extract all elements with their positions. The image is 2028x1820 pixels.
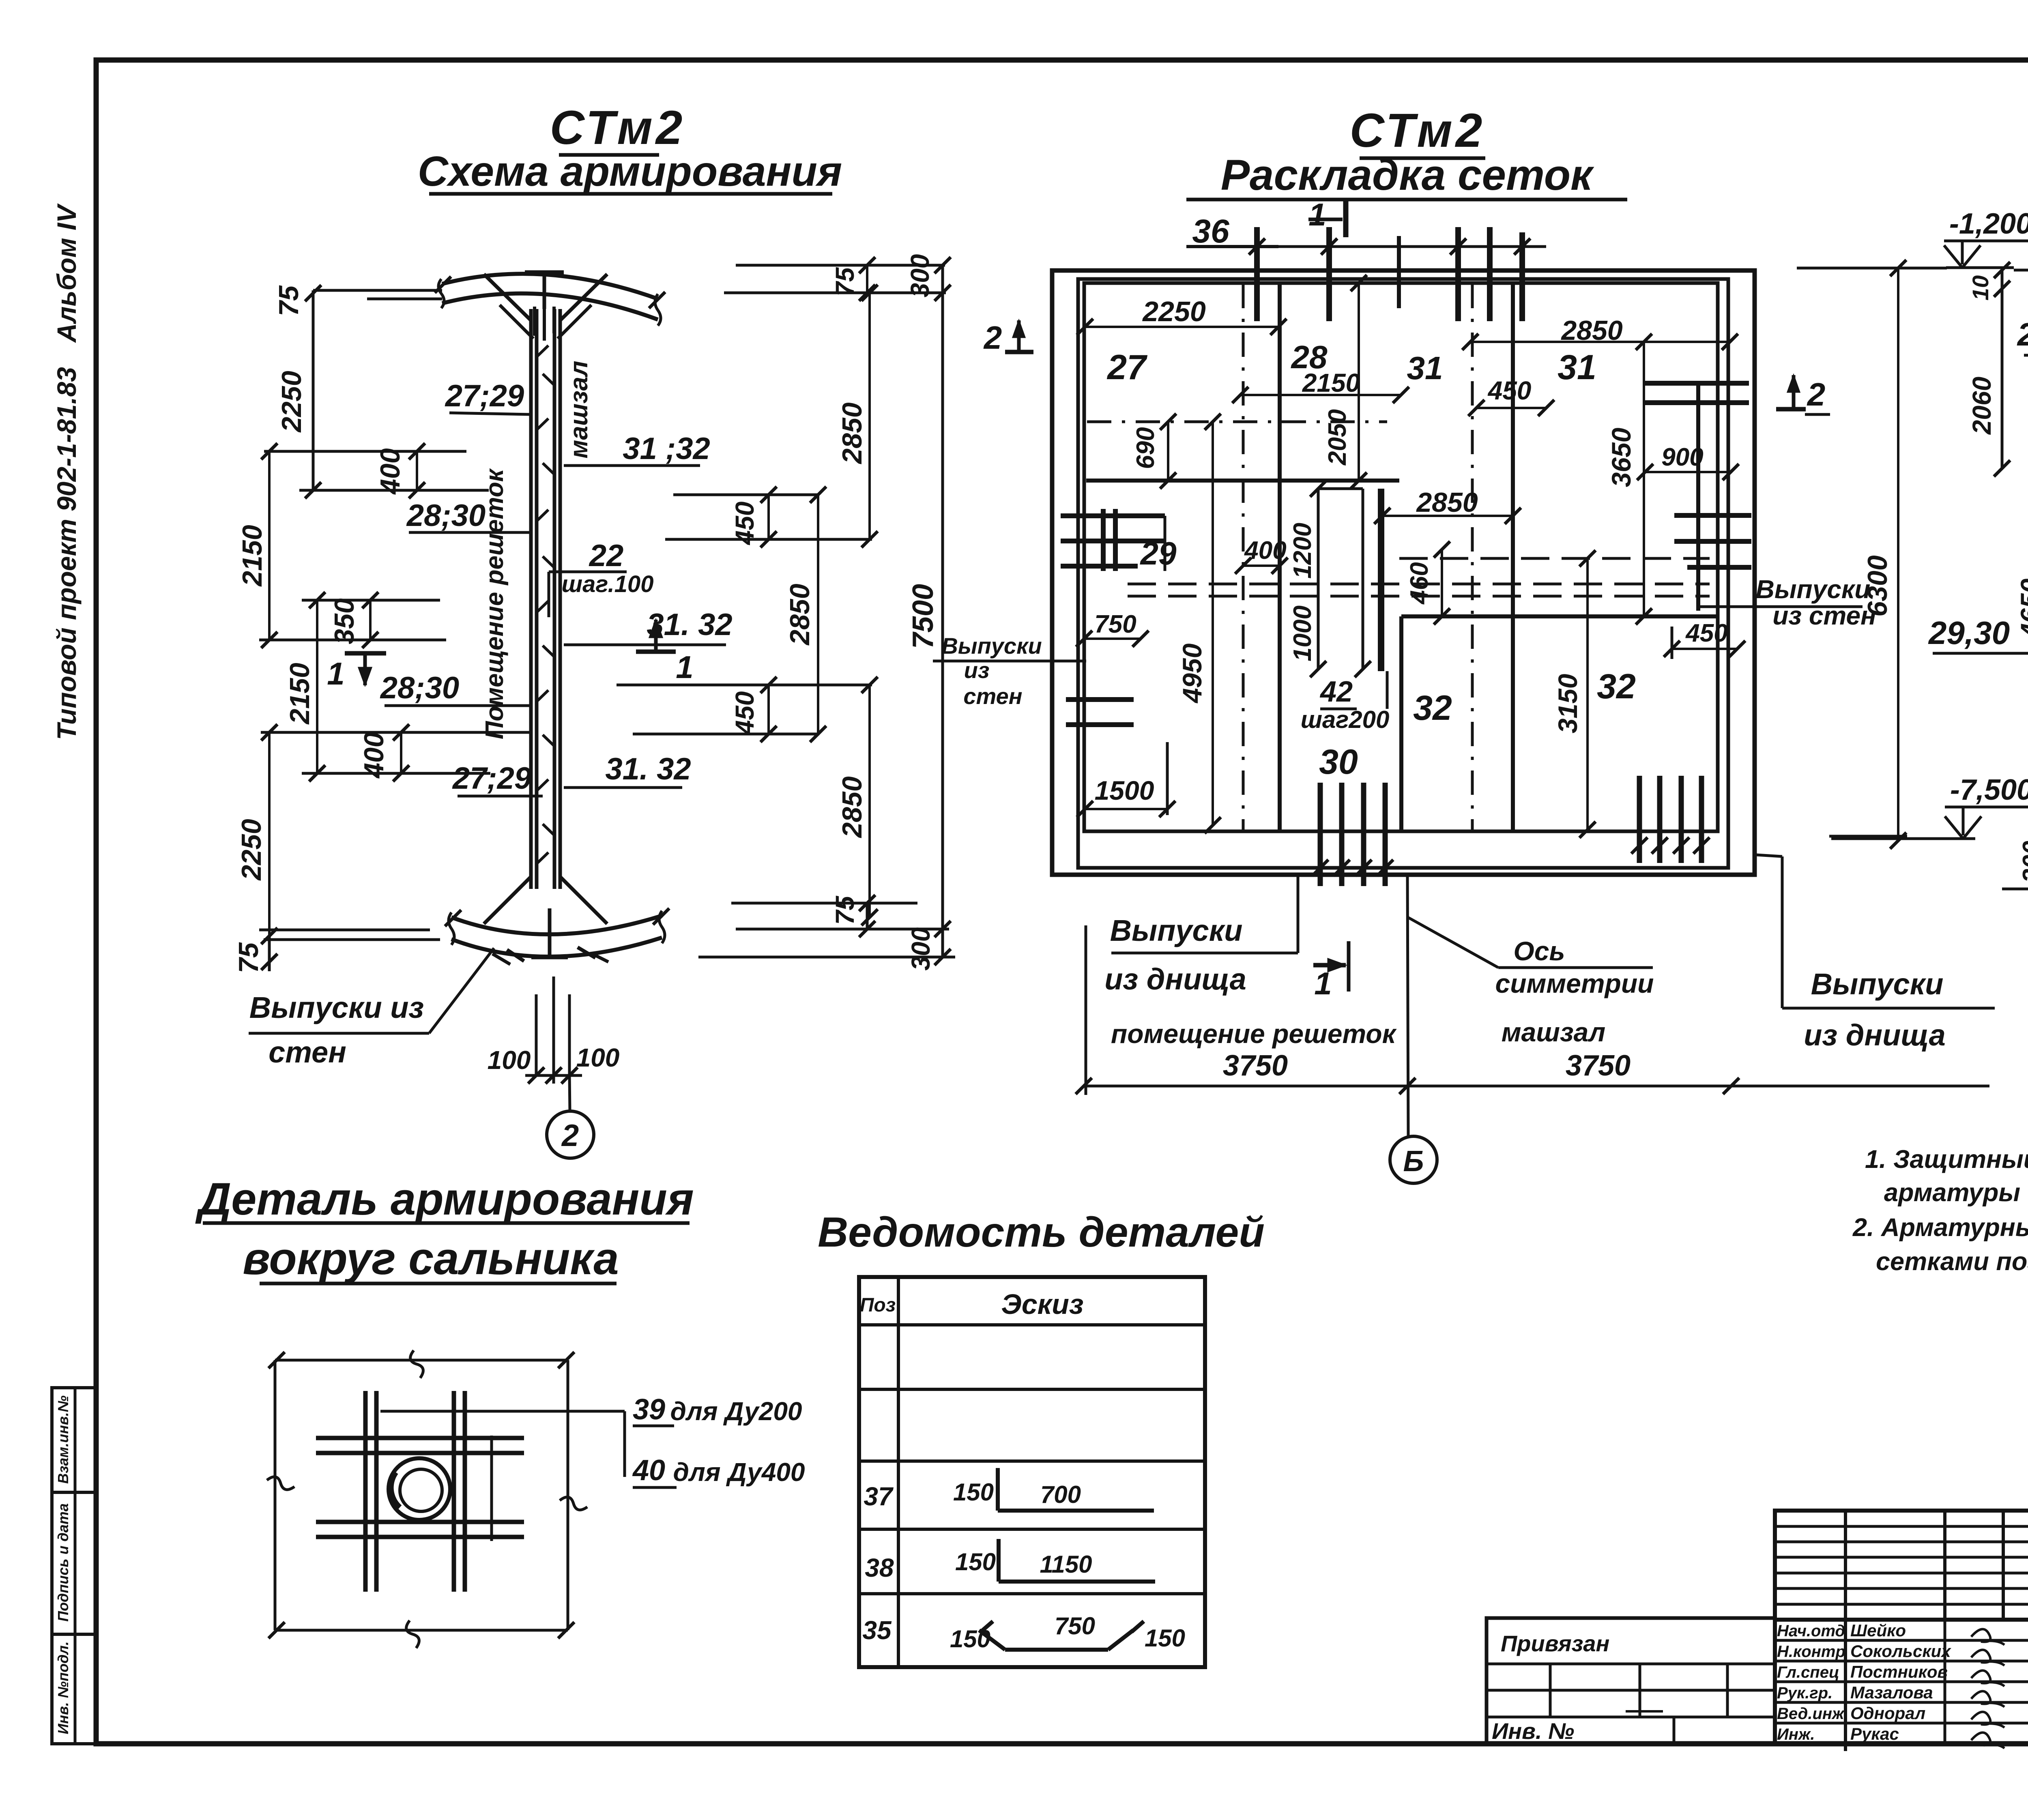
long dash axis y1440 — [1128, 583, 1710, 586]
detail left dim line — [274, 1360, 277, 1630]
section mark 1 right — [636, 650, 676, 654]
svg-text:30: 30 — [1319, 743, 1358, 781]
left ext line y1480 — [302, 599, 440, 602]
vertical axis dash line right — [1471, 284, 1474, 831]
wall bottom inverted T rebar — [548, 908, 552, 957]
svg-text:Раскладка сеток: Раскладка сеток — [1221, 150, 1594, 199]
svg-text:27, 28: 27, 28 — [2017, 316, 2028, 352]
wall bottom hook marks — [507, 950, 524, 961]
detail leader line — [380, 1410, 625, 1413]
right ext line y2227 — [731, 902, 917, 905]
svg-text:1000: 1000 — [1289, 605, 1317, 661]
vedomost row line 2 — [859, 1459, 1205, 1463]
svg-text:31: 31 — [1558, 348, 1596, 387]
svg-text:2. Арматурные выпуски поз. 4: 2. Арматурные выпуски поз. 42 связать с — [1852, 1213, 2028, 1242]
svg-text:150: 150 — [950, 1625, 990, 1653]
s11 dim 2060 — [2001, 270, 2004, 468]
svg-text:28;30: 28;30 — [380, 671, 459, 705]
s11 ext 6300 left top — [1898, 267, 1947, 270]
vedomost header divider — [859, 1323, 1205, 1326]
left dim 400 upper line — [416, 451, 418, 490]
svg-text:1150: 1150 — [1040, 1551, 1092, 1578]
svg-text:арматуры - 25 мм.: арматуры - 25 мм. — [1884, 1178, 2028, 1207]
svg-text:Б: Б — [1403, 1145, 1424, 1178]
svg-text:32: 32 — [1413, 689, 1452, 728]
circle mark 2 left drawing — [547, 1111, 594, 1158]
right ext line y1330 — [665, 538, 872, 541]
svg-text:450: 450 — [1685, 619, 1727, 647]
right ext line y722 — [724, 292, 946, 294]
svg-text:75: 75 — [273, 285, 304, 316]
svg-text:460: 460 — [1405, 562, 1433, 605]
mesh 27 bottom boundary — [1086, 479, 1399, 483]
svg-text:75: 75 — [233, 942, 264, 973]
svg-text:42: 42 — [1319, 676, 1353, 708]
svg-text:Помещение решеток: Помещение решеток — [481, 468, 509, 739]
svg-text:450: 450 — [730, 691, 759, 736]
long dash axis y1470 — [1128, 595, 1710, 598]
vypuski iz dnishcha bars right group — [1637, 776, 1642, 863]
leader vypuski iz sten — [429, 948, 494, 1033]
wall top hatch bars — [533, 307, 536, 336]
left ext line y1806 — [261, 731, 529, 734]
svg-text:2150: 2150 — [284, 663, 315, 725]
mesh 36 top bars — [1254, 227, 1260, 321]
right dim 450 upper line — [767, 495, 770, 539]
svg-text:Инж.: Инж. — [1777, 1726, 1815, 1743]
leader os simmetrii — [1408, 917, 1498, 968]
svg-text:Гл.спец: Гл.спец — [1777, 1663, 1839, 1681]
svg-text:2250: 2250 — [236, 819, 267, 881]
svg-text:31: 31 — [1407, 350, 1443, 386]
right dim 7500 line — [941, 265, 944, 957]
plan second border — [1078, 279, 1728, 868]
svg-text:стен: стен — [963, 683, 1022, 709]
detail horizontal bars top pair — [316, 1436, 524, 1440]
right ext line y1810 — [633, 733, 819, 736]
plan inner face — [1084, 283, 1718, 831]
svg-text:Типовой проект 902-1-81.83: Типовой проект 902-1-81.83 — [52, 367, 82, 740]
svg-text:2150: 2150 — [1302, 368, 1360, 397]
right ext line y2360 — [698, 956, 955, 959]
svg-text:2850: 2850 — [1416, 487, 1478, 518]
svg-text:Выпуски: Выпуски — [1110, 914, 1243, 947]
svg-text:150: 150 — [1145, 1625, 1185, 1652]
svg-text:3650: 3650 — [1606, 427, 1636, 487]
titleblock narrow grid columns — [1844, 1511, 1847, 1751]
svg-text:1: 1 — [1314, 966, 1332, 1001]
dash axis y1377 right half — [1399, 557, 1710, 560]
titleblock outer top part — [1775, 1511, 2028, 1620]
below-slab rebar verticals — [535, 994, 538, 1075]
top slab right break mark — [655, 294, 661, 326]
svg-text:-7,500: -7,500 — [1950, 774, 2028, 806]
left ext line y1578 — [259, 639, 446, 642]
right wall mesh bars lower trio — [1674, 513, 1751, 518]
svg-text:Выпуски: Выпуски — [1756, 575, 1871, 604]
svg-text:вокруг сальника: вокруг сальника — [243, 1233, 619, 1284]
svg-text:450: 450 — [730, 502, 759, 546]
left stamp column — [52, 1388, 96, 1744]
svg-text:32: 32 — [1597, 667, 1636, 706]
right dim 2850 upper line — [868, 293, 871, 539]
svg-text:Инв. №: Инв. № — [1492, 1718, 1574, 1744]
svg-text:2150: 2150 — [237, 525, 268, 587]
svg-text:27: 27 — [1106, 348, 1148, 387]
mesh 32 step vertical — [1399, 616, 1403, 831]
svg-text:Деталь армирования: Деталь армирования — [195, 1174, 694, 1224]
mesh 32 top boundary right — [1401, 614, 1719, 618]
mesh 36 bars crossing wall — [1397, 236, 1401, 308]
svg-text:Н.контр: Н.контр — [1777, 1643, 1845, 1661]
svg-text:Привязан: Привязан — [1501, 1631, 1609, 1656]
vedomost row line 3 — [859, 1528, 1205, 1531]
bottom 100 100 dim line — [525, 1074, 582, 1077]
svg-text:Шейко: Шейко — [1850, 1621, 1906, 1640]
top slab end ticks — [435, 277, 451, 293]
left ext line y1113 — [264, 450, 466, 453]
left dim 350 line — [369, 600, 372, 640]
right ext line y1689 — [617, 684, 872, 687]
titleblock left block dashes — [1626, 1710, 1663, 1713]
svg-text:шаг.100: шаг.100 — [562, 571, 654, 597]
svg-text:Выпуски: Выпуски — [941, 633, 1042, 659]
vedomost outer rect — [859, 1277, 1205, 1667]
mesh 29 cell outline — [1115, 515, 1165, 517]
svg-text:-1,200: -1,200 — [1949, 208, 2028, 240]
svg-text:37: 37 — [864, 1482, 894, 1511]
svg-text:2850: 2850 — [837, 776, 868, 838]
svg-text:75: 75 — [830, 267, 859, 296]
left drawing bottom slab — [451, 916, 662, 934]
svg-text:10: 10 — [1968, 275, 1993, 300]
svg-text:Инв. №подл.: Инв. №подл. — [55, 1641, 71, 1734]
svg-text:СТм2: СТм2 — [1350, 104, 1486, 157]
svg-text:Постников: Постников — [1850, 1662, 1948, 1681]
s11 top ext line left — [2014, 269, 2028, 272]
svg-text:400: 400 — [359, 732, 389, 779]
left ext line y1907 — [302, 772, 490, 775]
bottom slab end ticks — [445, 910, 461, 926]
svg-text:2250: 2250 — [276, 371, 307, 433]
svg-text:27;29: 27;29 — [452, 761, 531, 796]
svg-text:Эскиз: Эскиз — [1001, 1288, 1083, 1320]
wall tie hooks — [537, 346, 548, 357]
svg-text:38: 38 — [865, 1553, 894, 1582]
plan right ext top — [1797, 267, 1906, 270]
titleblock signatures squiggles — [1971, 1629, 2004, 1645]
svg-text:31. 32: 31. 32 — [605, 752, 691, 786]
dim 4950 — [1212, 422, 1214, 825]
central thick bar 42 — [1378, 489, 1384, 671]
svg-text:150: 150 — [955, 1548, 996, 1575]
svg-text:4950: 4950 — [1177, 643, 1207, 704]
bottom slab left break mark — [449, 912, 454, 945]
left ext line y2293 — [259, 929, 430, 931]
svg-text:сетками поз.27,31, 32 вязаль: сетками поз.27,31, 32 вязальной проволок… — [1876, 1247, 2028, 1276]
mesh boundary vertical x3155 — [1278, 284, 1282, 831]
svg-text:из: из — [964, 657, 990, 683]
wall top flare diagonals — [484, 274, 531, 320]
left dim chain 75-2250 line — [312, 290, 315, 490]
svg-text:из днища: из днища — [1104, 962, 1246, 996]
svg-text:Однорал: Однорал — [1850, 1704, 1925, 1723]
svg-text:СТм2: СТм2 — [550, 101, 686, 155]
svg-text:для Ду400: для Ду400 — [673, 1457, 805, 1487]
svg-text:400: 400 — [375, 448, 406, 495]
vedomost row line 1 — [859, 1388, 1205, 1391]
right dim 2850 lower line — [868, 685, 871, 917]
svg-text:1500: 1500 — [1095, 775, 1154, 805]
svg-text:стен: стен — [269, 1035, 346, 1069]
dim 3750 3750 line — [1084, 1085, 1989, 1088]
right dim 2850 middle line — [817, 495, 819, 734]
titleblock left attach block — [1487, 1618, 1775, 1744]
mesh 29 vertical bars — [1101, 509, 1106, 571]
mesh 29 horizontal bars — [1061, 513, 1165, 518]
svg-text:29,30: 29,30 — [1928, 615, 2010, 651]
bottom slab right break mark — [659, 911, 665, 943]
titleblock signature rows — [1775, 1639, 2028, 1642]
s11 dim 300 ext — [2002, 888, 2028, 891]
left dim 2150 upper line — [268, 451, 271, 640]
vedomost row line 4 — [859, 1592, 1205, 1595]
svg-text:2850: 2850 — [784, 584, 815, 646]
svg-text:750: 750 — [1094, 610, 1136, 638]
wall top T rebar — [525, 270, 564, 275]
leader vypuski left — [1297, 875, 1300, 953]
svg-text:2250: 2250 — [1142, 296, 1206, 327]
svg-text:Подпись и дата: Подпись и дата — [55, 1503, 71, 1622]
svg-text:100: 100 — [576, 1043, 620, 1072]
mesh boundary vertical x3730 — [1511, 283, 1515, 831]
right ext line y1220 — [673, 494, 819, 496]
svg-text:Рукас: Рукас — [1850, 1724, 1899, 1743]
svg-text:6300: 6300 — [1862, 555, 1893, 616]
vedomost sketch 35 — [981, 1621, 993, 1632]
svg-text:2050: 2050 — [1323, 409, 1351, 466]
svg-text:2060: 2060 — [1967, 377, 1996, 435]
svg-text:3150: 3150 — [1553, 674, 1583, 733]
titleblock name col divider — [1944, 1620, 1946, 1744]
dim 460 — [1441, 549, 1443, 616]
titleblock left block dividers — [1549, 1664, 1552, 1717]
svg-text:7500: 7500 — [907, 584, 939, 649]
ext line 3750 left — [1085, 925, 1087, 1095]
svg-text:Вед.инж: Вед.инж — [1777, 1705, 1845, 1723]
svg-text:300: 300 — [906, 927, 935, 971]
circle mark B — [1390, 1136, 1437, 1183]
svg-text:Мазалова: Мазалова — [1850, 1683, 1933, 1702]
svg-text:40: 40 — [632, 1454, 665, 1487]
vertical axis dash line left — [1242, 284, 1245, 831]
svg-text:помещение решеток: помещение решеток — [1111, 1019, 1397, 1049]
svg-text:2: 2 — [983, 320, 1002, 356]
left dim 400 lower line — [400, 732, 402, 773]
left dim 2250 lower line — [268, 732, 271, 936]
detail pipe inner circle — [400, 1469, 442, 1511]
detail top dim line — [275, 1359, 568, 1362]
svg-text:Выпуски из: Выпуски из — [249, 991, 424, 1024]
svg-text:Взам.инв.№: Взам.инв.№ — [55, 1395, 71, 1484]
svg-text:29: 29 — [1140, 535, 1177, 571]
svg-text:300: 300 — [905, 254, 935, 298]
svg-text:1200: 1200 — [1289, 523, 1317, 579]
detail vertical bars right pair — [452, 1391, 456, 1592]
svg-text:1: 1 — [327, 656, 344, 691]
svg-text:2: 2 — [561, 1118, 579, 1153]
leader to circle 2 — [569, 1075, 570, 1111]
svg-text:Нач.отд: Нач.отд — [1777, 1622, 1845, 1640]
leader vypuski right — [1756, 855, 1782, 856]
svg-text:75: 75 — [830, 895, 859, 925]
dim 2050 — [1358, 283, 1360, 481]
vypuski bars left dim line — [1314, 867, 1392, 869]
vedomost col divider — [897, 1277, 900, 1667]
right wall vertical bar — [1696, 381, 1700, 611]
svg-text:450: 450 — [1487, 376, 1532, 405]
svg-text:36: 36 — [1192, 213, 1230, 250]
svg-text:31. 32: 31. 32 — [647, 607, 732, 642]
dim 690 — [1167, 422, 1169, 481]
section mark 1 top — [1343, 198, 1349, 237]
svg-text:750: 750 — [1055, 1612, 1095, 1640]
svg-text:150: 150 — [953, 1479, 994, 1506]
plan right ext bottom — [1829, 835, 1907, 838]
svg-text:Рук.гр.: Рук.гр. — [1777, 1684, 1833, 1702]
right ext line y2291 — [736, 928, 949, 931]
wall right mesh lines — [553, 309, 556, 889]
left drawing top slab — [442, 274, 658, 299]
svg-text:350: 350 — [329, 598, 360, 644]
titleblock narrow grid rows — [1775, 1525, 2028, 1528]
svg-text:100: 100 — [488, 1045, 531, 1075]
dash axis line horizontal mesh27 — [1087, 421, 1387, 423]
svg-text:2850: 2850 — [837, 402, 868, 464]
leader vypuski iz sten right — [1699, 605, 1765, 608]
svg-text:симметрии: симметрии — [1495, 968, 1654, 998]
dim 3150 — [1586, 558, 1589, 830]
left dim ext line top — [313, 289, 442, 292]
svg-text:Ось: Ось — [1513, 936, 1565, 966]
svg-text:3750: 3750 — [1223, 1050, 1288, 1082]
svg-text:900: 900 — [1661, 443, 1703, 471]
titleblock lower band — [1775, 1620, 2028, 1744]
svg-text:Сокольских: Сокольских — [1850, 1642, 1951, 1661]
svg-text:из стен: из стен — [1772, 601, 1876, 630]
detail pipe hatch — [391, 1472, 400, 1508]
svg-text:шаг200: шаг200 — [1301, 706, 1390, 733]
right dim 450 lower line — [767, 685, 770, 734]
wall left mesh lines — [529, 309, 533, 889]
svg-text:2: 2 — [1807, 376, 1826, 412]
svg-text:машзал: машзал — [565, 361, 593, 459]
mesh 36 dim line top — [1278, 245, 1546, 248]
svg-text:700: 700 — [1040, 1481, 1081, 1508]
s11 dim 6300 left — [1897, 268, 1899, 841]
svg-text:35: 35 — [862, 1616, 892, 1645]
detail pipe outer circle — [389, 1458, 450, 1520]
svg-text:3750: 3750 — [1566, 1050, 1631, 1082]
svg-text:690: 690 — [1132, 427, 1160, 469]
svg-text:Поз: Поз — [860, 1294, 896, 1316]
svg-text:31 ;32: 31 ;32 — [623, 431, 710, 466]
axis line to B circle — [1407, 876, 1408, 1135]
detail right vline — [567, 1360, 569, 1630]
section mark 1 bottom — [1347, 941, 1351, 992]
detail small vline right — [490, 1436, 493, 1541]
svg-text:1: 1 — [1308, 197, 1326, 232]
svg-text:1. Защитный слой бетона для: 1. Защитный слой бетона для рабочей — [1865, 1145, 2028, 1174]
detail vertical bars left pair — [363, 1391, 368, 1592]
svg-text:300: 300 — [2018, 841, 2028, 882]
detail horizontal bars bottom pair — [316, 1520, 524, 1524]
dim 3650 — [1643, 342, 1645, 616]
svg-text:28;30: 28;30 — [406, 498, 486, 533]
svg-text:из днища: из днища — [1804, 1018, 1946, 1052]
top slab left break mark — [438, 279, 444, 308]
svg-text:22: 22 — [589, 539, 624, 573]
left ext line y1209 — [299, 489, 489, 492]
svg-text:1: 1 — [676, 649, 693, 685]
svg-text:машзал: машзал — [1502, 1017, 1605, 1047]
vypuski iz dnishcha bars left group — [1318, 783, 1323, 886]
svg-text:для Ду200: для Ду200 — [670, 1397, 802, 1426]
svg-text:4650: 4650 — [2015, 578, 2028, 639]
plan outer border — [1052, 270, 1755, 875]
svg-text:Альбом IV: Альбом IV — [52, 203, 82, 343]
right ext line y654 — [736, 264, 945, 267]
bracket 42 — [1386, 671, 1389, 709]
wall bottom flare diagonals — [484, 877, 531, 924]
svg-text:Схема армирования: Схема армирования — [418, 148, 842, 195]
svg-text:Выпуски: Выпуски — [1811, 967, 1944, 1001]
svg-text:27;29: 27;29 — [445, 379, 524, 413]
right wall mesh bars upper pair — [1644, 381, 1749, 386]
section mark 1 left — [345, 651, 386, 656]
svg-text:Ведомость деталей: Ведомость деталей — [818, 1209, 1265, 1256]
central opening rect — [1318, 487, 1363, 490]
detail bottom dim line — [275, 1629, 568, 1632]
left dim 2150 lower line — [316, 600, 318, 773]
svg-text:39: 39 — [633, 1393, 665, 1426]
right dim 75 top line — [866, 265, 868, 293]
section mark 2 right — [1776, 407, 1806, 412]
